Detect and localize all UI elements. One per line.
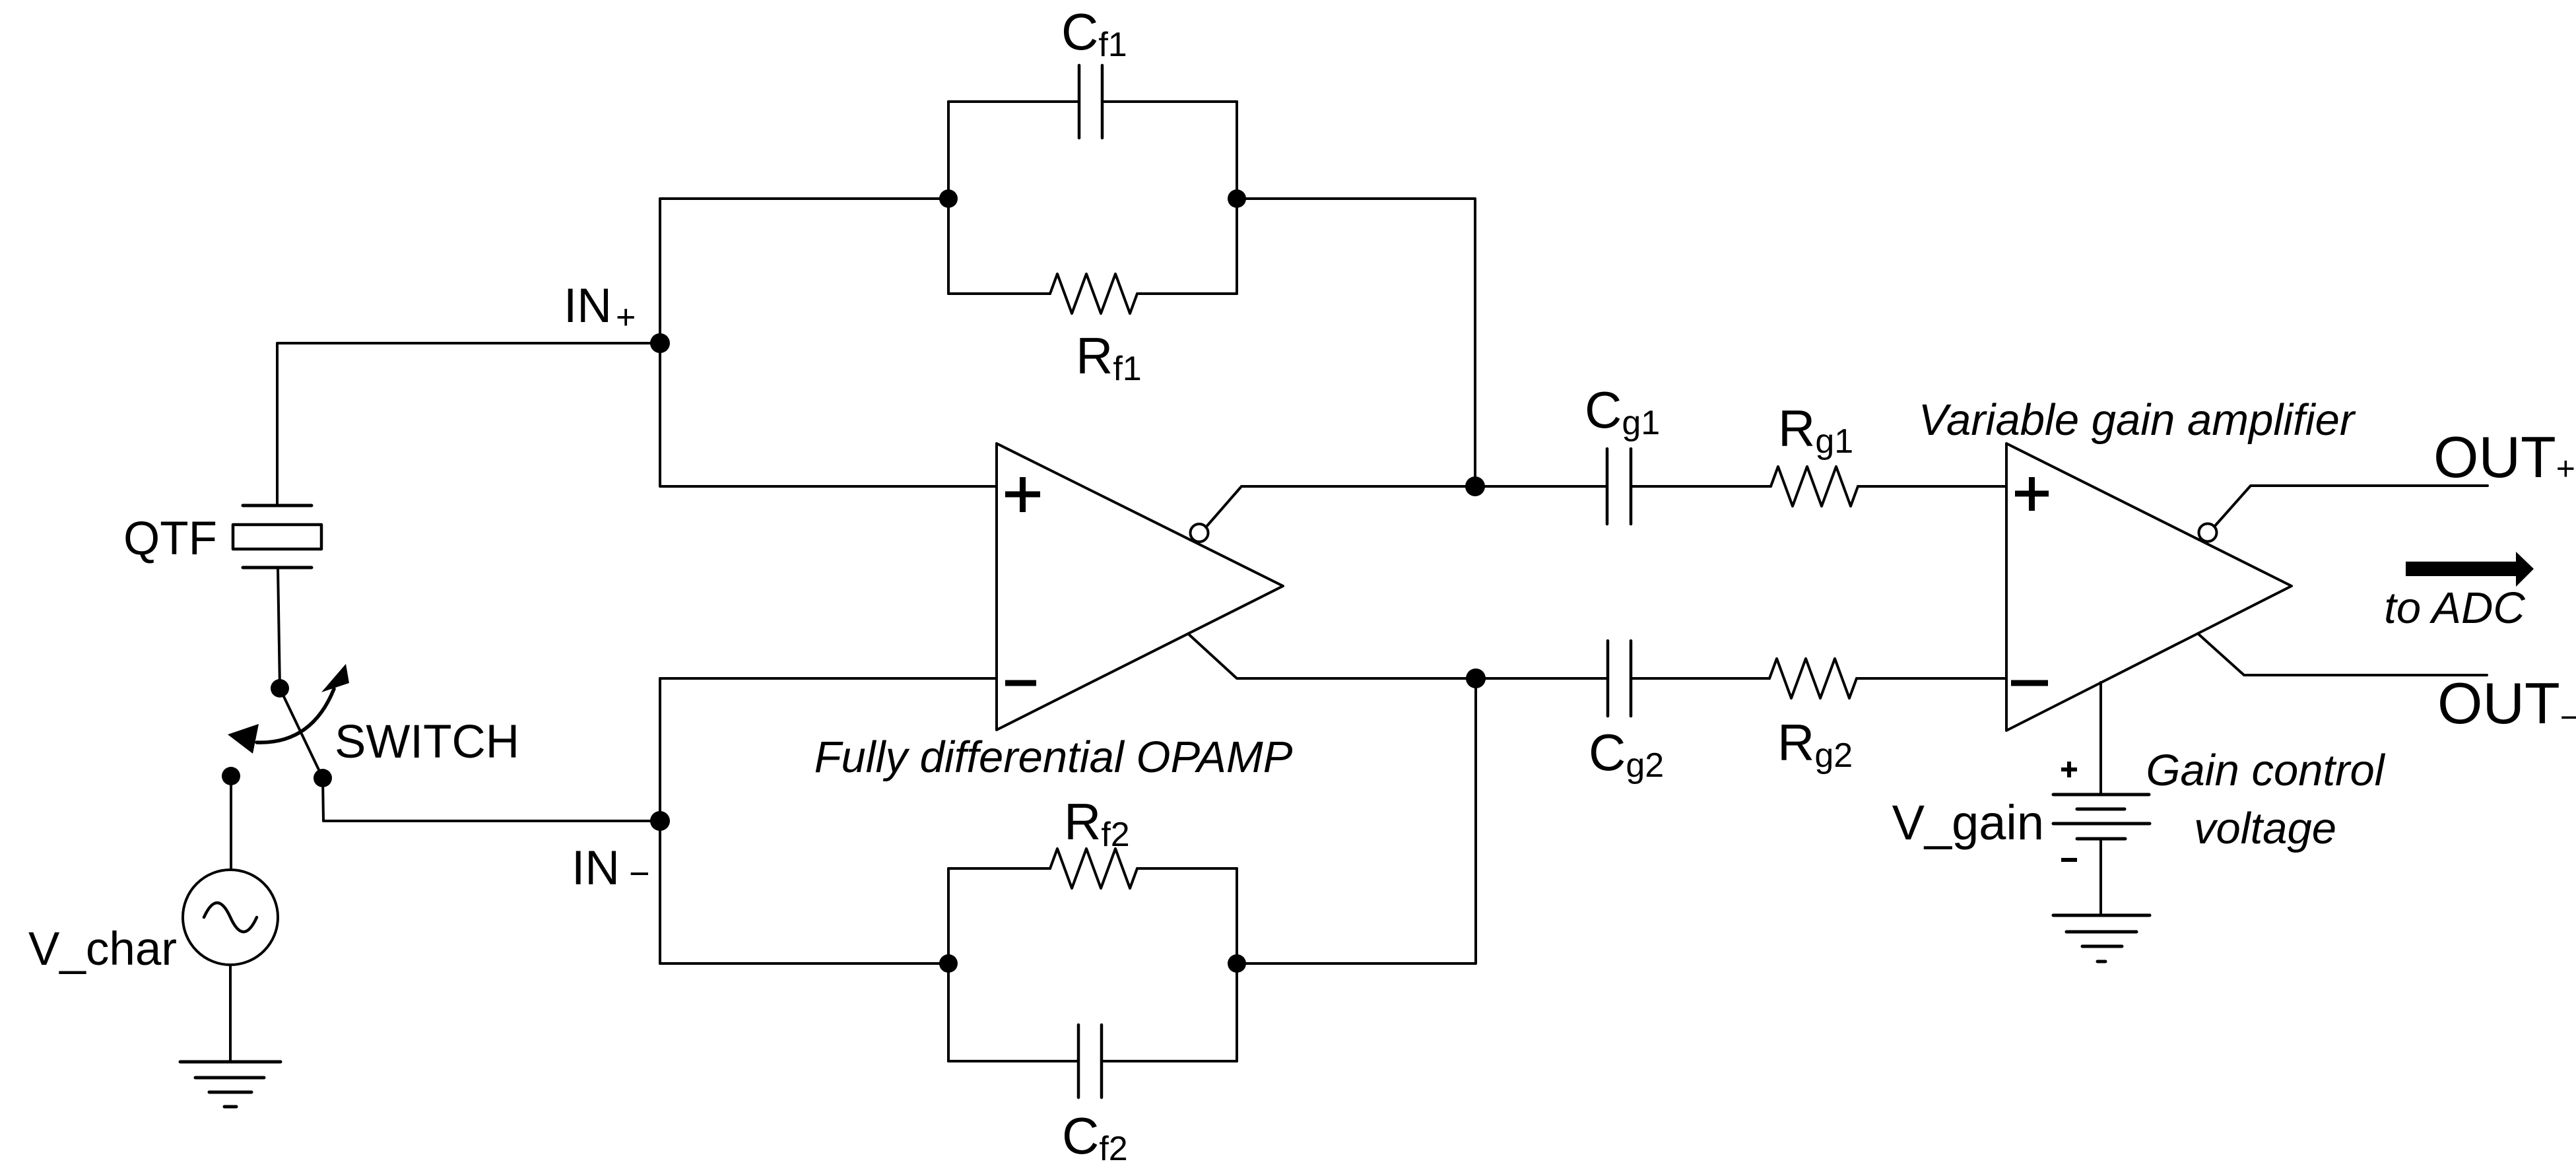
svg-text:OUT−: OUT− [2437, 670, 2576, 736]
svg-text:Gain control: Gain control [2146, 746, 2385, 795]
svg-text:voltage: voltage [2194, 804, 2336, 853]
svg-text:SWITCH: SWITCH [335, 716, 519, 768]
svg-text:Variable gain amplifier: Variable gain amplifier [1919, 395, 2356, 445]
svg-text:QTF: QTF [123, 513, 217, 565]
svg-text:V_char: V_char [28, 923, 177, 975]
svg-text:OUT+: OUT+ [2433, 424, 2575, 490]
svg-text:to ADC: to ADC [2384, 583, 2525, 633]
svg-text:Fully differential OPAMP: Fully differential OPAMP [814, 733, 1293, 782]
svg-text:V_gain: V_gain [1892, 795, 2044, 850]
